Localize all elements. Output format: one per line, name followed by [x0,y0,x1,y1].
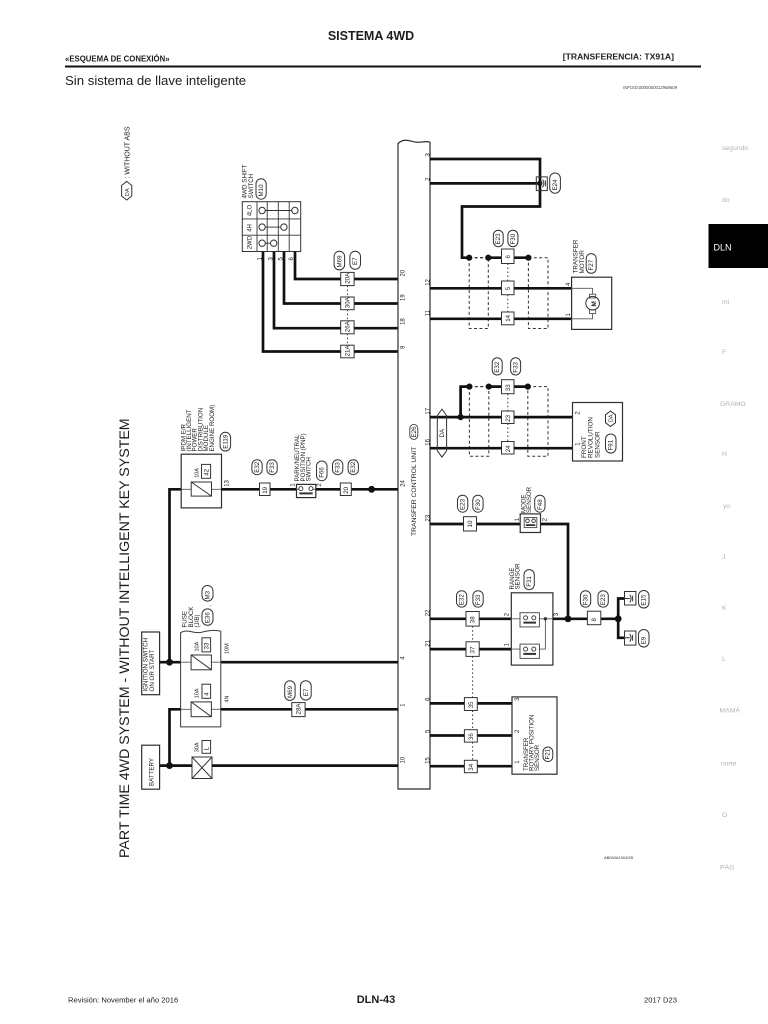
svg-text:F33: F33 [269,462,276,473]
svg-text:L: L [722,656,726,663]
svg-text:17: 17 [426,407,432,414]
wire TCU pin 5 to rotary sensor pin 2 [430,734,512,737]
watermark code [604,855,634,860]
switch contacts row 4LO [259,207,298,213]
svg-text:SWITCH: SWITCH [306,457,313,481]
svg-text:ENGINE ROOM): ENGINE ROOM) [209,405,216,452]
svg-text:F30: F30 [475,499,482,510]
junction dot battery [166,762,173,769]
wire fusible link to TCU pin 10 [212,764,398,767]
svg-text:2: 2 [505,612,511,616]
TCU pin 6 [426,697,432,701]
TCU pin 17 [426,407,432,414]
svg-text:E24: E24 [552,179,559,191]
wire TCU pin 12 to motor pin 4 [430,287,572,290]
svg-text:do: do [722,197,730,204]
svg-text:L: L [204,747,211,751]
svg-text:13: 13 [225,479,231,486]
wire TCU pin 17 riser junction [461,387,470,418]
mode sensor pin 2 [542,517,548,521]
footer revision [68,996,178,1005]
pass-through terminal 6 [502,249,515,264]
footer model 2017 D23 [644,996,677,1005]
ground terminal E15 [625,591,650,609]
sidebar tab L [722,656,726,663]
TCU pin 18 [401,318,407,325]
svg-text:F21: F21 [545,748,552,759]
wire TCU pin 17 to front revolution sensor pin 2 [430,416,573,419]
fuse 10A 4 [181,684,221,717]
svg-text:SWITCH: SWITCH [248,173,255,198]
svg-text:16: 16 [426,438,432,445]
front revolution sensor pin 2 [575,411,581,415]
sidebar tab F [722,349,726,356]
switch pin 5 [279,257,285,261]
pass-through terminal 20 [340,483,351,496]
front revolution sensor F91 box [573,403,623,462]
svg-text:1: 1 [515,760,521,764]
svg-text:ABDWA1904GB: ABDWA1904GB [604,855,634,860]
svg-text:20A: 20A [345,272,352,284]
junction dot mode-range [565,615,572,622]
TCU pin 19 [401,294,407,301]
svg-text:DLN-43: DLN-43 [357,994,396,1006]
pass-through terminal 26A [341,320,354,333]
svg-text:M69: M69 [336,255,343,268]
svg-text:M69: M69 [287,685,294,698]
svg-text:2: 2 [515,729,521,733]
svg-text:9: 9 [401,345,407,349]
wire TCU pin 11 to motor pin 1 [430,317,572,320]
wire switch pin 1 to TCU pin 9 [263,252,398,352]
svg-text:DA: DA [125,188,131,196]
svg-text:Revisión: November el año 2016: Revisión: November el año 2016 [68,996,178,1005]
wire ground branch down E9 [618,619,624,638]
sidebar tab DLN black [709,224,768,268]
dashed connector body F30 right [528,258,548,329]
svg-text:1: 1 [291,483,297,487]
svg-text:F48: F48 [537,499,544,510]
svg-text:35: 35 [468,701,475,708]
TCU pin 20 [401,269,407,276]
dashed connector body E32 rev zone [469,387,488,457]
svg-text:E23: E23 [600,594,607,606]
wire TCU pin 23 to mode sensor [430,523,520,526]
battery box [142,745,160,789]
svg-text:MOTOR: MOTOR [579,250,586,274]
svg-text:20: 20 [343,486,350,493]
pass-through terminal 33 [502,380,515,394]
svg-text:1: 1 [505,643,511,647]
svg-text:PÁG: PÁG [720,863,734,872]
dashed connector body F33 rev zone [528,387,548,457]
wire switch pin 5 to TCU pin 19 [284,252,398,304]
pass-through terminal 24 [502,442,515,455]
svg-text:10: 10 [467,520,474,527]
pass-through terminal 28A [292,703,305,717]
connector F30 oval ground zone [580,591,590,607]
svg-text:12: 12 [426,278,432,285]
wire label 10M [224,643,230,654]
svg-text:F91: F91 [608,439,615,450]
wire battery to fusible link [160,764,192,767]
switch pin 3 [268,257,274,261]
svg-text:,: , [206,605,213,607]
svg-text:26A: 26A [345,320,352,332]
svg-text:38: 38 [470,616,477,623]
rotary sensor pin 2 [515,729,521,733]
TCU pin 16 [426,438,432,445]
wire ignition riser to IPDM [170,489,182,662]
svg-text:36: 36 [468,733,475,740]
sidebar tab H [722,451,727,458]
pass-through terminal 5 [502,281,515,295]
svg-text:6: 6 [505,255,512,259]
svg-text:E32: E32 [350,461,357,473]
sidebar tab K [722,605,727,612]
junction dot rev b [486,384,492,390]
TCU pin 12 [426,278,432,285]
junction dot ignition [166,659,173,666]
svg-text:33: 33 [505,384,512,391]
svg-text:1: 1 [566,313,572,317]
svg-text:H: H [722,451,727,458]
svg-text:E9: E9 [641,636,648,644]
pass-through terminal 34 [464,760,477,772]
TCU pin 9 [401,345,407,349]
svg-text:SISTEMA 4WD: SISTEMA 4WD [328,29,414,43]
svg-text:yo: yo [723,503,730,510]
dotted link terminals 35-36-34 [472,711,474,761]
4WD shift switch M10 label [242,164,267,199]
4WD shift switch S1 contact grid [242,202,300,252]
svg-text:M10: M10 [258,184,265,197]
wire ground branch up E15 [618,599,624,619]
pass-through terminal 36 [464,730,477,742]
connector E7 oval lower [300,681,311,700]
range sensor element upper [511,613,553,627]
svg-text:14: 14 [505,314,512,321]
svg-text:2: 2 [542,517,548,521]
sidebar tab N [721,761,737,768]
svg-text:F33: F33 [475,594,482,605]
svg-text:SENSOR: SENSOR [534,744,541,771]
svg-text:28A: 28A [295,703,302,715]
pass-through terminal 37 [466,642,479,657]
svg-text:J: J [722,554,725,561]
svg-text:E119: E119 [222,434,229,449]
svg-text:4H: 4H [248,224,254,232]
TCU pin 3 [426,153,432,157]
svg-text:10A: 10A [195,468,201,478]
svg-text:4LO: 4LO [248,205,254,217]
switch contacts row 2WD [259,240,277,246]
fuse block JB box [181,586,221,727]
connector E23 oval ground zone [598,591,608,607]
heading Sin sistema de llave inteligente [65,73,246,88]
junction dot ground split [615,615,622,622]
connector E23 oval motor zone [493,230,503,247]
dotted link terminals 38-37-35 [472,626,474,698]
wire TCU pin 6 to rotary sensor pin 3 [430,702,512,705]
junction dot ground branch c [525,255,531,261]
mode sensor pin 1 [515,517,521,521]
sidebar tab P [720,863,734,872]
svg-text:42: 42 [203,468,210,475]
svg-text:M3: M3 [205,590,212,599]
svg-text:M: M [591,301,598,306]
svg-text:8: 8 [591,618,598,622]
svg-text:10A: 10A [195,688,201,698]
mode sensor F48 [520,486,545,532]
svg-text:20: 20 [401,269,407,276]
pass-through terminal 8 [587,611,600,625]
TCU pin 15 [426,757,432,764]
svg-text:30A: 30A [195,742,201,752]
svg-text:: WITHOUT ABS: : WITHOUT ABS [125,126,132,178]
IPDM ER E119 box [180,405,230,508]
sidebar tab O [722,812,727,819]
junction dot ground branch a [466,255,472,261]
svg-text:INFOID:0000000012968609: INFOID:0000000012968609 [623,85,678,90]
ground terminal E24 [536,173,560,193]
wire TCU pin 21 to range sensor pin 1 [430,648,511,651]
svg-text:E23: E23 [495,233,502,245]
junction dot rev a [466,384,472,390]
connector F33 oval rev zone [511,358,521,375]
svg-text:E23: E23 [460,498,467,510]
wire TCU pin 16 to front revolution sensor pin 1 [430,447,573,450]
connector F30 oval motor zone [508,230,518,247]
sidebar tab B [722,145,748,152]
svg-text:4N: 4N [224,695,230,702]
svg-text:SENSOR: SENSOR [526,486,533,513]
sidebar tab G [720,401,746,408]
connector F30 oval mode zone [473,495,483,512]
svg-text:E26: E26 [411,426,418,438]
wire TCU pin 15 to rotary sensor pin 1 [430,765,512,768]
svg-text:F30: F30 [510,233,517,244]
motor M symbol [572,288,600,319]
splice dot pin 24 wire [368,486,375,493]
sidebar tab E [722,299,730,306]
svg-text:segundo: segundo [722,145,748,152]
fusible link 30A L [192,741,212,779]
wire label 4N [224,695,230,702]
pass-through terminal 23 [502,411,515,424]
TCU pin 24 [401,479,407,486]
svg-text:2017 D23: 2017 D23 [644,996,677,1005]
svg-text:22: 22 [426,609,432,616]
wire switch pin 3 to TCU pin 18 [274,252,398,329]
TCU pin 1 [401,703,407,707]
infoid note [623,85,678,90]
front revolution sensor pin 1 [575,442,581,446]
sidebar tab C [722,197,730,204]
fuse 10A 33 [181,638,221,670]
TCU pin 5 [426,729,432,733]
rotary sensor pin 1 [515,760,521,764]
svg-text:19: 19 [262,486,269,493]
switch contacts row 4H [259,224,287,230]
svg-text:F27: F27 [588,259,595,270]
svg-text:PART TIME 4WD SYSTEM - WITHOUT: PART TIME 4WD SYSTEM - WITHOUT INTELLIGE… [117,418,133,858]
sidebar tab I [723,503,730,510]
svg-text:4: 4 [401,656,407,660]
svg-text:34: 34 [468,763,475,770]
wire IPDM pin 13 to PNP switch [222,488,297,491]
rotated page title PART TIME 4WD SYSTEM [117,418,133,858]
TCU pin 2 [426,177,432,181]
svg-text:DA: DA [609,414,615,422]
svg-text:ON OR START: ON OR START [149,650,156,692]
svg-text:Sin sistema de llave inteligen: Sin sistema de llave inteligente [65,73,246,88]
svg-text:37: 37 [470,646,477,653]
footer page code DLN-43 [357,994,396,1006]
connector F33 oval pnp right [333,460,343,475]
wire TCU pin 3 to ground junction [430,159,540,258]
PNP pin 2 [317,483,323,487]
svg-text:norte: norte [721,761,737,768]
wire ignition switch to TCU pin 4 [160,661,398,664]
IPDM pin 13 [225,479,231,486]
pass-through terminal 21A [341,345,354,358]
svg-text:E7: E7 [352,257,359,265]
connector M69 oval top [334,251,345,270]
svg-text:«ESQUEMA DE CONEXIÓN»: «ESQUEMA DE CONEXIÓN» [65,55,170,64]
dotted link terminals 6-5-14 [507,264,509,313]
connector E32 oval range zone [457,591,467,607]
svg-text:33: 33 [204,642,211,649]
svg-text:21: 21 [426,639,432,646]
svg-text:21A: 21A [345,345,352,357]
svg-text:2: 2 [317,483,323,487]
TCU pin 23 [426,514,432,521]
svg-text:F33: F33 [335,462,342,473]
subtitle ESQUEMA DE CONEXION [65,55,170,64]
svg-text:TRANSFER CONTROL UNIT: TRANSFER CONTROL UNIT [411,447,418,536]
pass-through terminal 35 [464,698,477,711]
svg-text:4: 4 [566,282,572,286]
svg-text:E32: E32 [459,594,466,606]
connector E32 oval pnp left [252,460,262,475]
svg-text:23: 23 [426,514,432,521]
wire TCU pin 2 to ground E24 [430,182,540,185]
svg-text:GRAMO: GRAMO [720,401,746,408]
motor pin 1 [566,313,572,317]
range sensor pin 3 [554,612,560,616]
header rule [65,66,701,68]
svg-text:19: 19 [401,294,407,301]
connector F33 oval pnp left [267,460,277,475]
switch pin 1 [258,257,264,261]
svg-text:4: 4 [204,692,211,696]
svg-text:E7: E7 [303,688,310,696]
svg-text:10: 10 [401,756,407,763]
svg-text:15: 15 [426,757,432,764]
title SISTEMA 4WD [328,29,414,43]
TCU pin 22 [426,609,432,616]
svg-text:DA: DA [439,428,446,437]
junction dot ground branch b [485,255,491,261]
DA hexagon variant marker [437,409,446,457]
legend DA hexagon WITHOUT ABS [122,126,132,200]
svg-text:MAMÁ: MAMÁ [720,706,741,715]
svg-text:[TRANSFERENCIA: TX91A]: [TRANSFERENCIA: TX91A] [563,52,674,62]
svg-text:3: 3 [554,612,560,616]
pass-through terminal 10 [464,517,477,531]
pass-through terminal 20A [341,272,354,286]
transfer rotary position sensor F21 box [512,697,557,774]
svg-text:SENSOR: SENSOR [515,563,522,590]
svg-text:E36: E36 [205,612,212,624]
switch pin 6 [289,257,295,261]
svg-text:(J/B): (J/B) [194,614,201,627]
wire TCU pin 22 to range sensor pin 2 [430,617,511,620]
svg-text:10A: 10A [195,641,201,651]
transfer control unit E26 box [398,140,430,789]
connector E32 oval pnp right [348,460,358,475]
connector E23 oval mode zone [458,495,468,512]
dashed connector body E23 left [469,258,488,329]
dotted link terminals 33-23-24 [507,394,509,442]
wire PNP switch to TCU pin 24 [316,488,398,491]
TCU pin 21 [426,639,432,646]
svg-text:F: F [722,349,726,356]
svg-text:BATTERY: BATTERY [148,758,155,786]
svg-text:23: 23 [505,414,512,421]
ground terminal E9 [625,630,650,648]
transfer motor F27 box [572,239,612,329]
PNP pin 1 [291,483,297,487]
TCU pin 4 [401,656,407,660]
svg-text:F31: F31 [526,576,533,587]
svg-text:E32: E32 [494,361,501,373]
svg-text:F66: F66 [319,467,326,478]
svg-text:5: 5 [505,286,512,290]
svg-text:1: 1 [401,703,407,707]
pass-through terminal 38 [466,612,479,627]
range sensor F31 box [509,563,553,665]
svg-text:SENSOR: SENSOR [594,431,601,458]
svg-text:10M: 10M [224,643,230,654]
dotted connector link M69-E7 [346,286,348,346]
wire mode sensor to range junction [541,524,569,619]
wire battery riser to fuse 4 row [170,709,181,765]
TCU pin 11 [426,309,432,316]
wire fuse 4N to TCU pin 1 [221,708,398,711]
TCU pin 10 [401,756,407,763]
wire range sensor pin 3 to grounds [553,617,618,620]
svg-text:E32: E32 [254,461,261,473]
pass-through terminal 14 [502,312,515,325]
connector E32 oval rev zone [492,358,502,375]
wire rev sensor connector row [489,385,528,388]
motor pin 4 [566,282,572,286]
header tag TRANSFERENCIA TX91A [563,52,674,62]
svg-text:2: 2 [575,411,581,415]
IPDM internal fuse 10A 42 [181,464,221,496]
range sensor pin 2 [505,612,511,616]
svg-text:30A: 30A [345,296,352,308]
svg-text:F30: F30 [583,594,590,605]
svg-text:mi: mi [722,299,730,306]
range sensor pin 1 [505,643,511,647]
svg-text:O: O [722,812,727,819]
junction dot rev c [525,384,531,390]
wire switch pin 6 to TCU pin 20 [295,252,398,280]
svg-text:K: K [722,605,727,612]
